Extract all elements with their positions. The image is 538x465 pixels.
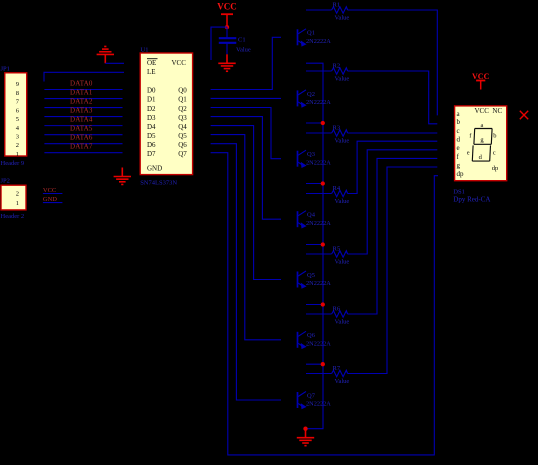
svg-text:VCC: VCC [475,107,490,115]
display DS1 value label [453,195,490,203]
connector JP2 Header 2 [1,185,26,210]
resistor R1 value label [335,15,350,22]
wire collector row stage 3 [306,132,332,134]
svg-text:Q1: Q1 [178,96,187,104]
svg-text:JP2: JP2 [1,178,10,185]
svg-text:Q6: Q6 [178,141,187,149]
net label DATA4 [70,116,93,124]
svg-text:Q5: Q5 [178,132,187,140]
svg-text:2N2222A: 2N2222A [306,220,331,227]
svg-text:Q3: Q3 [307,151,315,158]
svg-text:LE: LE [147,68,156,76]
svg-text:c: c [457,127,460,135]
svg-text:Q4: Q4 [178,123,187,131]
wire R7 to display [348,167,438,374]
wire R6 to display [348,158,438,314]
wire collector row stage 7 [306,373,332,375]
svg-text:C1: C1 [238,37,246,44]
latch U1 SN74LS373N body [140,53,192,175]
transistor Q1 type label [306,38,331,45]
svg-text:Q1: Q1 [307,30,315,37]
svg-text:DATA1: DATA1 [70,89,93,97]
wire emitter stub stage 4 [306,244,323,246]
svg-text:GND: GND [147,164,162,172]
transistor Q1 designator [307,30,315,37]
latch U1 part number label [140,180,177,187]
junction dot stage 5 [321,302,325,306]
wire DATA5 [44,134,122,136]
svg-text:b: b [457,118,461,126]
transistor Q6 type label [306,340,331,347]
wire DATA0 [44,89,122,91]
junction dot stage 2 [321,121,325,125]
net label DATA2 [70,98,93,106]
svg-text:Value: Value [335,378,350,385]
svg-text:Q5: Q5 [307,272,315,279]
svg-text:b: b [493,133,496,140]
transistor Q4 designator [307,212,316,219]
svg-text:2N2222A: 2N2222A [306,280,331,287]
wire VCC to latch VCC pin [211,27,227,60]
svg-text:DATA5: DATA5 [70,125,93,133]
net label DATA5 [70,125,93,133]
svg-text:R7: R7 [333,365,341,372]
svg-text:GND: GND [43,196,57,203]
wire emitter common vertical [306,63,324,429]
junction dot ground node [303,427,307,431]
svg-text:g: g [457,161,461,169]
svg-text:2N2222A: 2N2222A [306,340,331,347]
resistor R4 designator [333,185,341,192]
transistor Q6 2N2222A [298,331,307,349]
wire Q5 to Q6 base [211,135,281,340]
svg-text:D2: D2 [147,105,156,113]
net label DATA6 [70,134,93,142]
svg-text:OE: OE [147,59,156,67]
no connect X on NC pin [520,111,528,119]
svg-text:1: 1 [16,200,19,207]
svg-text:Value: Value [335,15,350,22]
transistor Q2 type label [306,99,331,106]
svg-text:Q3: Q3 [178,114,187,122]
svg-text:D4: D4 [147,123,156,131]
svg-text:Value: Value [335,198,350,205]
svg-text:e: e [457,144,460,152]
wire collector row stage 4 [306,193,332,195]
wire JP2 VCC [43,193,63,195]
net label GND [43,196,57,203]
transistor Q6 designator [307,332,316,339]
svg-text:D1: D1 [147,96,156,104]
wire emitter stub stage 3 [306,183,323,185]
wire R4 to display [348,141,438,193]
svg-text:3: 3 [16,134,19,141]
resistor R7 [332,370,348,376]
resistor R7 value label [335,378,350,385]
wire Q1 to Q2 base [211,97,281,99]
svg-text:2N2222A: 2N2222A [306,99,331,106]
svg-text:DATA7: DATA7 [70,143,93,151]
wire JP2 GND [43,202,63,204]
display DS1 body [455,106,507,181]
svg-text:c: c [493,150,496,157]
wire Q4 to Q5 base [211,126,281,280]
net label DATA3 [70,107,93,115]
svg-text:VCC: VCC [472,72,490,81]
svg-text:dp: dp [492,165,499,172]
resistor R5 value label [335,259,350,266]
svg-text:Q4: Q4 [307,212,316,219]
resistor R3 value label [335,138,350,145]
wire emitter stub stage 5 [306,304,323,306]
svg-text:SN74LS373N: SN74LS373N [140,180,177,187]
wire JP1 pin9 to LE [44,72,124,81]
svg-text:a: a [481,122,484,129]
svg-text:Q6: Q6 [307,332,316,339]
transistor Q3 designator [307,151,315,158]
svg-text:1: 1 [16,151,19,158]
resistor R1 [332,7,348,13]
transistor Q7 type label [306,401,331,408]
wire DATA2 [44,107,122,109]
transistor Q2 2N2222A [298,90,307,108]
svg-text:NC: NC [492,107,502,115]
transistor Q3 type label [306,159,331,166]
svg-text:JP1: JP1 [1,66,10,73]
connector JP1 value label Header 9 [1,160,25,167]
svg-text:R3: R3 [333,125,341,132]
transistor Q5 designator [307,272,315,279]
wire DATA6 [44,143,122,145]
svg-text:Header 9: Header 9 [1,160,25,167]
connector JP1 designator [1,66,10,73]
svg-text:5: 5 [16,116,19,123]
svg-text:e: e [467,150,470,157]
junction dot stage 6 [321,362,325,366]
latch U1 designator [141,47,149,54]
transistor Q3 2N2222A [298,150,307,168]
net label DATA1 [70,89,93,97]
wire R5 to display [348,150,438,254]
svg-text:DATA0: DATA0 [70,80,93,88]
wire collector row stage 2 [306,70,332,72]
svg-text:Dpy Red-CA: Dpy Red-CA [453,195,490,203]
svg-text:D7: D7 [147,150,156,158]
connector JP1 Header 9 [5,73,27,158]
wire collector row stage 1 [306,9,332,11]
wire emitter stub stage 6 [306,363,323,365]
ground symbol at OE [97,46,114,63]
svg-text:Value: Value [335,319,350,326]
connector JP2 designator [1,178,10,185]
transistor Q2 designator [307,91,315,98]
transistor Q1 2N2222A [298,29,307,47]
resistor R2 value label [335,76,350,83]
resistor R3 [332,130,348,136]
resistor R4 value label [335,198,350,205]
svg-text:D5: D5 [147,132,156,140]
wire R3 to display [348,132,438,134]
display DS1 seven segment glyph [467,122,498,172]
svg-text:Q2: Q2 [178,105,187,113]
svg-text:9: 9 [16,81,19,88]
resistor R3 designator [333,125,341,132]
wire Q6 to Q7 base [211,144,281,400]
svg-text:2N2222A: 2N2222A [306,159,331,166]
transistor Q5 type label [306,280,331,287]
wire DATA7 [44,152,122,154]
svg-text:2N2222A: 2N2222A [306,401,331,408]
svg-text:dp: dp [457,170,465,178]
wire R2 to display [348,71,438,124]
svg-text:R6: R6 [333,306,341,313]
wire emitter stub stage 2 [306,122,323,124]
svg-text:Header 2: Header 2 [1,213,25,220]
net label DATA7 [70,143,93,151]
wire DATA3 [44,116,122,118]
display DS1 designator [453,188,465,195]
svg-text:Value: Value [335,76,350,83]
svg-text:VCC: VCC [43,187,56,194]
resistor R7 designator [333,365,341,372]
resistor R5 designator [333,246,341,253]
svg-text:2N2222A: 2N2222A [306,38,331,45]
junction dot stage 3 [321,181,325,185]
svg-text:Q2: Q2 [307,91,315,98]
svg-text:D3: D3 [147,114,156,122]
svg-text:Q0: Q0 [178,87,187,95]
resistor R6 value label [335,319,350,326]
svg-text:2: 2 [16,142,19,149]
svg-text:VCC: VCC [217,2,237,12]
transistor Q7 designator [307,392,316,399]
svg-text:Q7: Q7 [178,150,187,158]
svg-text:Value: Value [335,138,350,145]
resistor R4 [332,190,348,196]
wire R1 to display [348,10,438,115]
svg-text:Value: Value [335,259,350,266]
wire ground to OE pin [105,62,124,64]
svg-text:2: 2 [16,191,19,198]
svg-text:VCC: VCC [172,59,187,67]
svg-text:R5: R5 [333,246,341,253]
resistor R1 designator [333,2,341,9]
transistor Q5 2N2222A [298,271,307,289]
svg-text:8: 8 [16,90,19,97]
svg-text:Value: Value [236,47,251,54]
svg-text:R2: R2 [333,63,341,70]
transistor Q4 type label [306,220,331,227]
capacitor C1 value label [236,47,251,54]
ground at latch GND pin [114,168,131,185]
wire collector row stage 6 [306,313,332,315]
junction dot VCC node [225,25,229,29]
svg-text:DATA6: DATA6 [70,134,93,142]
svg-text:DATA3: DATA3 [70,107,93,115]
net label DATA0 [70,80,93,88]
resistor R2 designator [333,63,341,70]
wire Q2 to Q3 base [211,108,281,159]
wire Q0 to Q1 base [211,37,281,89]
resistor R6 designator [333,306,341,313]
resistor R6 [332,311,348,317]
wire Q3 to Q4 base [211,117,281,220]
svg-text:d: d [457,136,461,144]
wire collector row stage 5 [306,253,332,255]
connector JP2 value label Header 2 [1,213,25,220]
capacitor C1 [219,27,237,54]
svg-text:D0: D0 [147,87,156,95]
svg-text:DATA4: DATA4 [70,116,93,124]
svg-text:Q7: Q7 [307,392,316,399]
junction dot stage 4 [321,242,325,246]
svg-text:R4: R4 [333,185,341,192]
capacitor C1 designator [238,37,246,44]
transistor Q7 2N2222A [298,392,307,410]
wire DATA1 [44,98,122,100]
power VCC display [472,72,490,90]
svg-text:DATA2: DATA2 [70,98,93,106]
wire Q7 to display dp [211,153,438,455]
transistor Q4 2N2222A [298,211,307,229]
net label VCC [43,187,56,194]
ground symbol bottom [297,429,314,446]
power VCC main [217,2,237,28]
svg-text:R1: R1 [333,2,341,9]
wire DATA4 [44,125,122,127]
ground below C1 [218,54,235,71]
resistor R2 [332,68,348,74]
svg-text:D6: D6 [147,141,156,149]
svg-text:DS1: DS1 [453,188,465,195]
resistor R5 [332,251,348,257]
